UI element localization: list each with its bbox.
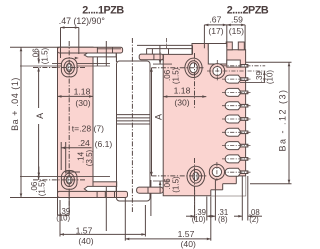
svg-text:.47 (12)/90°: .47 (12)/90° [59,16,105,26]
right view top tab 1 [226,42,232,50]
left top boss inner [64,61,74,74]
right dim .06 top ext [153,63,172,65]
left view bottom hook slot [84,186,116,191]
left view vertical line x106 top [105,41,107,66]
dim .67 line [204,24,245,26]
svg-text:1.57: 1.57 [178,229,195,239]
right top strip tick [153,54,155,60]
right dim A line [151,68,153,176]
right top circle2 [210,64,225,79]
right boss vertical centerline top [194,53,196,108]
comb contact centerlines [222,65,265,67]
right top boss horiz centerline [152,67,205,69]
dim A left line [38,68,40,109]
chain ext circle center [214,180,216,221]
svg-text:(2): (2) [249,215,259,224]
svg-text:(40): (40) [181,239,196,249]
svg-text:(1.5): (1.5) [171,67,180,84]
left top boss hole [66,63,72,71]
right dim .39 line [263,71,265,82]
right dim .06 bottom ext [153,180,170,182]
right view top flange strip [139,54,163,60]
middle centerline [131,38,133,212]
left view bottom hook [93,182,117,187]
right bottom boss inner [190,170,202,184]
svg-text:(30): (30) [174,98,189,108]
right view body fill [163,54,245,195]
svg-text:(1.5): (1.5) [38,179,47,196]
left centerline vertical [68,41,70,213]
svg-text:(15): (15) [229,26,244,36]
right top circle2 hole [213,67,222,76]
dim 1.18 left line [58,95,94,97]
comb slots [225,75,240,83]
dim Ba-.12 line [288,62,290,183]
right bottom boss outer [187,166,205,186]
right view upper lip line 1 [137,44,193,46]
right boss vertical centerline bottom [194,158,196,221]
left bottom screw centerline [33,179,86,181]
chain dim line [186,215,195,217]
right dim .39 ext2 [240,81,265,83]
right bottom strip tick [147,187,149,193]
middle band line 3 [117,120,151,122]
chain ext oval center [194,190,196,221]
dim .47 ext left [60,28,62,59]
right dim .06 bottom arrow [159,181,161,193]
chain ext x205 [206,197,208,221]
right bottom boss horiz centerline [152,175,208,177]
dim .06 top arrow line [38,51,40,64]
dim Ba+.04 ext top [10,46,57,48]
right bottom boss hole [193,172,199,180]
right circle2 horiz centerline [207,70,265,72]
left view hook lower line 2 [20,65,110,67]
left view top strip tick 2 [112,47,114,53]
svg-text:(1.5): (1.5) [41,47,50,64]
svg-text:.39: .39 [255,71,264,83]
svg-text:(3.5): (3.5) [85,149,94,166]
left view bottom strip tick 3 [114,191,116,197]
svg-text:Ba + .04 (1): Ba + .04 (1) [10,77,20,131]
dim .47 ext right [78,28,80,55]
right view upper lip right [192,45,194,54]
right view body outline [163,44,245,196]
dim Ba+.04 ext bottom [10,197,57,199]
left view top flange strip [58,47,123,53]
svg-text:Ba - .12 (3): Ba - .12 (3) [278,88,288,151]
svg-text:(40): (40) [78,236,93,246]
svg-text:t=.28 (7): t=.28 (7) [72,124,104,134]
left view hook lower line 1 [52,62,110,64]
right view body top-left edge [162,54,164,61]
dim .67 ext 1 [203,25,205,48]
right bottom circle2 [209,164,224,179]
countersink arrow [75,57,79,60]
middle connector body [117,61,151,201]
right bottom boss slot mark [194,173,196,180]
dim .14 ext [65,142,67,174]
right view upper strip tick [151,49,153,55]
right view bottom flange strip [137,187,164,193]
left top boss outer [61,58,77,77]
left bottom boss outer [61,171,77,190]
right top boss outer [185,58,202,77]
left view vertical line x106 bottom [105,187,107,231]
left top screw centerline [33,67,86,69]
chain ext 1.57 end [210,197,212,241]
svg-text:(30): (30) [75,98,90,108]
svg-text:A: A [153,114,163,120]
dim .24 line [61,147,91,149]
dim .67 ext 2 [226,25,228,47]
right circle2 top centerline [216,60,218,81]
middle ext line [150,180,152,216]
svg-text:A: A [35,113,45,119]
dim .47 line [61,27,79,29]
svg-text:.24: .24 [78,138,90,148]
comb necks [240,65,248,68]
left bottom boss inner [64,173,74,186]
right dim 1.18 line [163,96,206,98]
right bottom circle2 hole [212,167,221,176]
right view top tab 2 [238,42,244,50]
svg-text:(6.1): (6.1) [95,139,113,149]
right view upper strip tick3 [168,49,170,55]
dim Ba-.12 ext top [246,61,292,63]
right view upper lip line 2 [147,48,193,50]
dim 1.57L ext right [144,205,146,237]
right view upper lip left tick [146,49,148,55]
dim .06 bottom arrow line [38,167,40,177]
right top boss hole [190,63,198,73]
right dim .06 top arrow [159,52,161,64]
dim Ba+.04 line [20,47,22,197]
middle band line 1 [117,114,151,116]
dim .39L line [58,214,70,216]
dim .67 ext 3 [244,25,246,50]
right view stub centerline [166,38,168,48]
svg-text:(17): (17) [208,26,223,36]
left view bottom flange strip [58,191,128,197]
svg-text:.67: .67 [209,14,221,24]
svg-text:(10): (10) [265,70,274,85]
middle band line 2 [117,117,151,119]
right 1.57 ext left [124,198,126,241]
left view bottom strip tick 2 [104,191,106,197]
left top boss slot mark [67,64,69,71]
left bottom boss hole [66,176,72,184]
svg-text:(1.5): (1.5) [171,176,180,193]
dim .24 ext [60,142,62,170]
svg-text:.59: .59 [231,14,243,24]
left bottom boss slot mark [67,177,69,184]
chain ext tab left [241,176,243,221]
right circle2 bottom centerline [216,162,218,181]
dim .14 line [66,171,80,173]
middle hook edge link [116,57,118,62]
middle band line 4 [117,123,151,125]
svg-text:2....1PZB: 2....1PZB [82,5,124,17]
left view top strip inner line [97,48,121,50]
chain ext tab right [247,176,249,221]
dim 1.57R line [125,238,211,240]
left view top strip tick 1 [96,47,98,66]
right view top notch [208,44,227,65]
left view top hook edge [115,53,117,62]
svg-text:(8): (8) [218,215,228,224]
left view bottom strip tick 1 [96,191,98,197]
dim 1.57L ext left [59,200,61,237]
comb slot row 0 [227,60,241,67]
right top boss inner [188,61,199,75]
svg-text:1.18: 1.18 [174,86,191,96]
right view upper strip tick2 [159,45,161,54]
left bottom ext line [20,176,110,178]
right view bottom steps [211,176,246,196]
svg-text:(10): (10) [192,215,206,224]
dim Ba-.12 ext bottom [250,183,292,185]
svg-text:1.18: 1.18 [74,87,91,97]
left view top hook slot [84,53,116,57]
dim .39L ext right [68,190,70,216]
dim 1.57L line [60,233,145,235]
left view wall [58,47,94,197]
dim .39L ext left [57,198,59,216]
